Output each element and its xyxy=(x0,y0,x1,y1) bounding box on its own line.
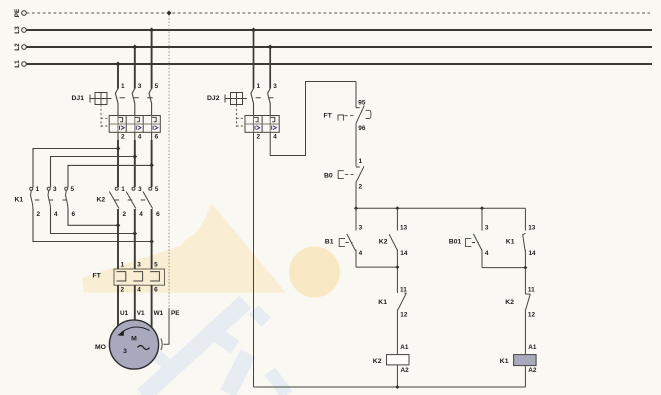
node join left xyxy=(395,265,399,269)
svg-text:2: 2 xyxy=(257,133,261,140)
svg-text:1: 1 xyxy=(121,186,125,193)
circuit breaker DJ2 xyxy=(207,83,279,140)
DJ2 trip unit box xyxy=(245,116,279,133)
svg-text:3: 3 xyxy=(123,348,127,355)
wire DJ1 pin2 down to K2 pin1 xyxy=(117,132,119,140)
wire K2 pin4 to FT pin3 xyxy=(134,209,136,269)
wire K2 pin2 to FT pin1 xyxy=(117,209,119,269)
svg-text:A2: A2 xyxy=(401,367,410,374)
svg-text:4: 4 xyxy=(138,133,142,140)
contactor K1 main contacts xyxy=(15,186,76,218)
wire K1 pin6 to K2 pin2 xyxy=(68,209,118,226)
svg-text:1: 1 xyxy=(36,186,40,193)
contact K1 aux NO 13-14 xyxy=(506,208,536,267)
svg-text:4: 4 xyxy=(54,211,58,218)
svg-text:W1: W1 xyxy=(154,310,164,317)
contact K2 NC 11-12 (interlock) xyxy=(505,268,535,355)
node join right xyxy=(523,266,527,270)
svg-text:MO: MO xyxy=(95,344,106,351)
wire control rail xyxy=(356,207,525,209)
svg-text:B01: B01 xyxy=(449,238,462,245)
svg-text:4: 4 xyxy=(139,211,143,218)
svg-text:5: 5 xyxy=(155,83,159,90)
svg-text:B1: B1 xyxy=(325,238,334,245)
svg-text:1: 1 xyxy=(257,83,261,90)
svg-text:5: 5 xyxy=(154,262,158,269)
wire FT pin6 to motor W1 xyxy=(151,285,153,327)
svg-text:5: 5 xyxy=(155,186,159,193)
DJ1 pole blades xyxy=(115,89,118,116)
svg-text:12: 12 xyxy=(528,311,536,318)
node K2 pin6 xyxy=(149,239,154,244)
svg-text:B0: B0 xyxy=(324,173,333,180)
coil K1 xyxy=(500,344,537,387)
svg-text:1: 1 xyxy=(359,158,363,165)
wire DJ1 pin6 down to K2 pin5 xyxy=(151,132,153,140)
svg-text:V1: V1 xyxy=(137,310,145,317)
wire FT pin4 to motor V1 xyxy=(134,285,136,320)
wire B01 join K1 aux xyxy=(482,267,525,269)
node DJ1 pin6 / K1 branch xyxy=(149,163,154,168)
svg-text:95: 95 xyxy=(358,99,366,106)
svg-text:A2: A2 xyxy=(528,367,537,374)
svg-text:96: 96 xyxy=(358,125,366,132)
svg-text:4: 4 xyxy=(359,250,363,257)
wire bottom rail xyxy=(254,386,526,388)
node PE drop junction xyxy=(167,11,172,16)
node rail B01 xyxy=(480,206,484,210)
svg-text:K1: K1 xyxy=(15,197,24,204)
svg-text:4: 4 xyxy=(485,250,489,257)
wire B0 to rail xyxy=(355,182,357,208)
contact K1 NC 11-12 (interlock) xyxy=(378,267,408,355)
svg-text:FT: FT xyxy=(93,273,102,280)
DJ1 thermal hooks xyxy=(118,117,123,121)
node L2 to DJ2 pole 3 xyxy=(268,45,273,50)
circuit breaker DJ1 xyxy=(72,83,161,140)
svg-text:DJ1: DJ1 xyxy=(72,95,85,102)
svg-text:3: 3 xyxy=(138,186,142,193)
svg-text:1: 1 xyxy=(121,262,125,269)
wire DJ1 pin4 down to K2 pin3 xyxy=(134,132,136,140)
svg-text:3: 3 xyxy=(138,83,142,90)
svg-text:14: 14 xyxy=(529,250,537,257)
thermal overload relay FT (power) xyxy=(93,262,165,294)
svg-text:13: 13 xyxy=(400,224,408,231)
wire to K1 pin3 xyxy=(51,157,135,188)
svg-text:K2: K2 xyxy=(505,299,514,306)
node bottom rail K2 coil xyxy=(395,385,399,389)
wire L1 to DJ1 pin1 xyxy=(117,64,119,89)
wire K1 pin4 to K2 pin4 xyxy=(51,209,135,234)
wire to K1 pin5 xyxy=(68,165,152,187)
svg-text:L1: L1 xyxy=(14,60,21,68)
svg-text:A1: A1 xyxy=(400,344,409,351)
node L1 to DJ1 pole 1 xyxy=(116,62,121,67)
pushbutton B1 (NO) xyxy=(325,208,363,267)
svg-text:3: 3 xyxy=(53,186,57,193)
DJ1 trip unit box xyxy=(109,116,160,133)
node DJ1 pin4 / K1 branch xyxy=(133,154,138,159)
svg-text:1: 1 xyxy=(121,83,125,90)
svg-text:K2: K2 xyxy=(373,358,382,365)
FT auxiliary NC contact 95-96 xyxy=(324,82,371,167)
node K2 pin2 xyxy=(116,223,121,228)
svg-text:FT: FT xyxy=(324,113,333,120)
wire DJ2 pin2 down to bottom rail xyxy=(253,132,255,387)
wire DJ2 pin4 to FT95 xyxy=(270,82,356,156)
wire K1 pin2 to K2 pin6 xyxy=(33,209,152,242)
svg-text:A1: A1 xyxy=(528,344,537,351)
contactor K2 main contacts xyxy=(97,186,161,218)
node L2 to DJ1 pole 3 xyxy=(132,45,137,50)
svg-text:5: 5 xyxy=(71,186,75,193)
svg-text:2: 2 xyxy=(121,287,125,294)
svg-text:6: 6 xyxy=(72,211,76,218)
DJ1 pole lines through box xyxy=(117,116,119,133)
bus L3 xyxy=(14,26,652,34)
wire K2 pin6 to FT pin5 xyxy=(151,209,153,269)
svg-text:2: 2 xyxy=(123,211,127,218)
node L3 to DJ1 pole 5 xyxy=(149,28,154,33)
node L3 to DJ2 pole 1 xyxy=(251,28,256,33)
svg-text:4: 4 xyxy=(273,133,277,140)
svg-text:3: 3 xyxy=(137,262,141,269)
svg-text:L2: L2 xyxy=(14,43,21,51)
svg-text:DJ2: DJ2 xyxy=(207,95,220,102)
svg-text:K1: K1 xyxy=(500,358,509,365)
motor PE bracket xyxy=(161,339,162,350)
svg-text:2: 2 xyxy=(37,211,41,218)
svg-text:L3: L3 xyxy=(14,26,21,34)
svg-text:2: 2 xyxy=(121,133,125,140)
svg-text:U1: U1 xyxy=(120,310,129,317)
wire B1 join K2 aux xyxy=(356,266,397,268)
contact K2 aux NO 13-14 xyxy=(379,208,408,267)
wire L3 to DJ1 pin5 xyxy=(151,30,153,89)
svg-text:4: 4 xyxy=(137,287,141,294)
svg-text:K1: K1 xyxy=(378,299,387,306)
bus PE xyxy=(14,8,650,17)
wire PE to motor frame xyxy=(164,308,170,344)
svg-text:11: 11 xyxy=(528,286,535,293)
wire L2 to DJ2 pin3 xyxy=(269,47,271,89)
wire FT96 to B0 xyxy=(355,124,357,167)
svg-text:14: 14 xyxy=(400,250,408,257)
svg-text:PE: PE xyxy=(14,8,21,17)
svg-text:3: 3 xyxy=(359,224,363,231)
wire L2 to DJ1 pin3 xyxy=(134,47,136,89)
svg-text:6: 6 xyxy=(156,211,160,218)
svg-text:11: 11 xyxy=(400,286,407,293)
wire to K1 pin1 xyxy=(33,149,118,188)
svg-text:K2: K2 xyxy=(97,197,106,204)
pushbutton B01 (NO) xyxy=(449,208,489,267)
svg-text:13: 13 xyxy=(528,224,536,231)
coil K2 xyxy=(373,344,409,387)
svg-text:K1: K1 xyxy=(506,238,515,245)
node DJ1 pin2 / K1 branch xyxy=(116,146,121,151)
svg-text:M: M xyxy=(131,336,137,343)
svg-text:2: 2 xyxy=(359,184,363,191)
svg-text:PE: PE xyxy=(171,310,180,317)
svg-text:12: 12 xyxy=(400,311,408,318)
motor MO xyxy=(95,320,159,369)
node K2 pin4 xyxy=(133,231,138,236)
pushbutton B0 (NC) xyxy=(324,158,364,208)
bus L1 xyxy=(14,60,652,68)
svg-text:6: 6 xyxy=(154,287,158,294)
DJ1 magnetic trip marks xyxy=(120,126,158,130)
node rail K2 aux xyxy=(395,206,399,210)
wire L3 to DJ2 pin1 xyxy=(253,30,255,89)
wire FT pin2 to motor U1 xyxy=(117,285,119,326)
svg-text:6: 6 xyxy=(155,133,159,140)
svg-text:3: 3 xyxy=(273,83,277,90)
wire PE drop (dotted) xyxy=(168,15,170,308)
svg-text:3: 3 xyxy=(485,224,489,231)
node rail B0/B1 xyxy=(354,206,358,210)
svg-text:K2: K2 xyxy=(379,238,388,245)
bus L2 xyxy=(14,43,652,51)
